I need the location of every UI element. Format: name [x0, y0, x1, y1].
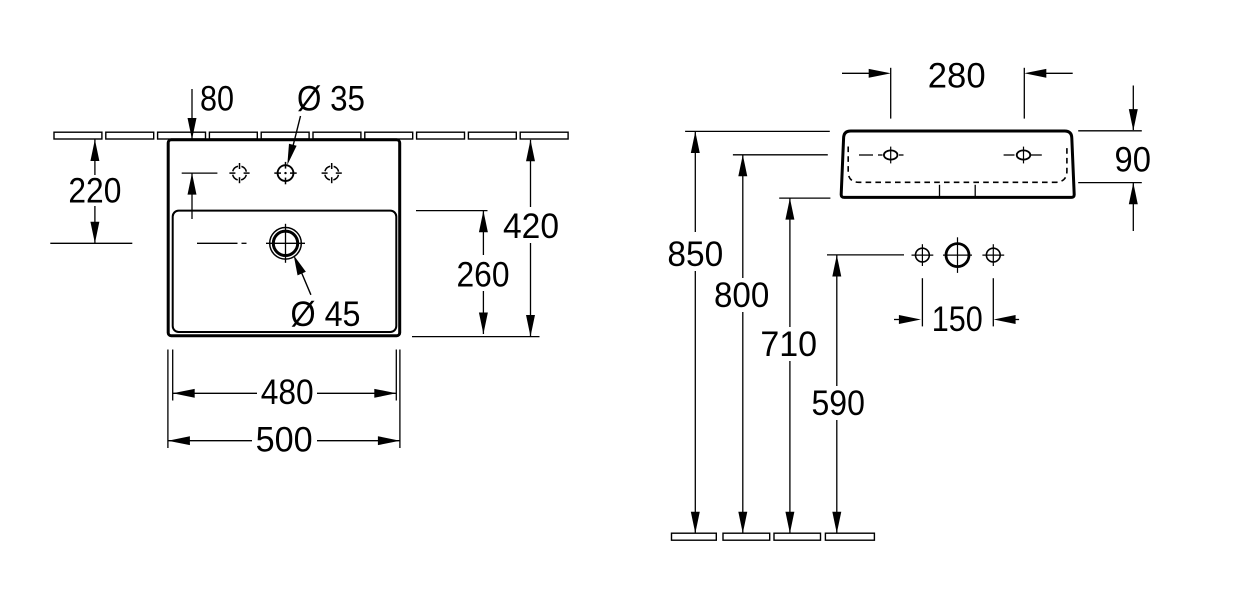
tap hole centre Ø35 (plan) — [274, 162, 296, 184]
svg-text:800: 800 — [714, 276, 769, 315]
svg-text:710: 710 — [760, 325, 817, 364]
svg-text:80: 80 — [200, 80, 234, 119]
waste / overflow fittings (elevation) — [912, 237, 1005, 273]
svg-text:280: 280 — [928, 57, 986, 96]
drain recess lines (elevation) — [940, 185, 976, 196]
svg-text:260: 260 — [457, 256, 510, 295]
tap hole centreline (plan) — [182, 172, 218, 174]
svg-text:500: 500 — [256, 421, 313, 460]
drain centreline (plan) — [197, 242, 247, 244]
svg-text:150: 150 — [932, 300, 983, 339]
drain hole Ø45 (plan) — [266, 224, 305, 263]
washbasin body (front elevation) — [841, 131, 1074, 197]
svg-text:90: 90 — [1115, 141, 1151, 180]
tap hole left (dashed circle, plan) — [229, 163, 249, 183]
floor tile band (elevation) — [672, 533, 875, 540]
hidden bowl outline (dashed, elevation) — [848, 147, 1067, 183]
tap hole left (elevation ellipse) — [859, 147, 904, 164]
svg-text:420: 420 — [503, 207, 559, 246]
basin bowl inner edge (plan view) — [173, 211, 397, 332]
svg-text:590: 590 — [812, 384, 865, 423]
svg-text:220: 220 — [68, 172, 121, 211]
washbasin outer rim (plan view) — [168, 140, 400, 336]
tap hole right (dashed circle, plan) — [322, 163, 342, 183]
svg-text:Ø 35: Ø 35 — [297, 80, 365, 119]
svg-text:850: 850 — [667, 235, 723, 274]
svg-text:480: 480 — [261, 373, 314, 412]
extension lines below basin (plan) — [168, 350, 400, 449]
svg-text:Ø 45: Ø 45 — [291, 295, 361, 334]
wall tile band (plan view) — [54, 132, 568, 139]
tap hole right (elevation ellipse) — [1004, 147, 1042, 164]
